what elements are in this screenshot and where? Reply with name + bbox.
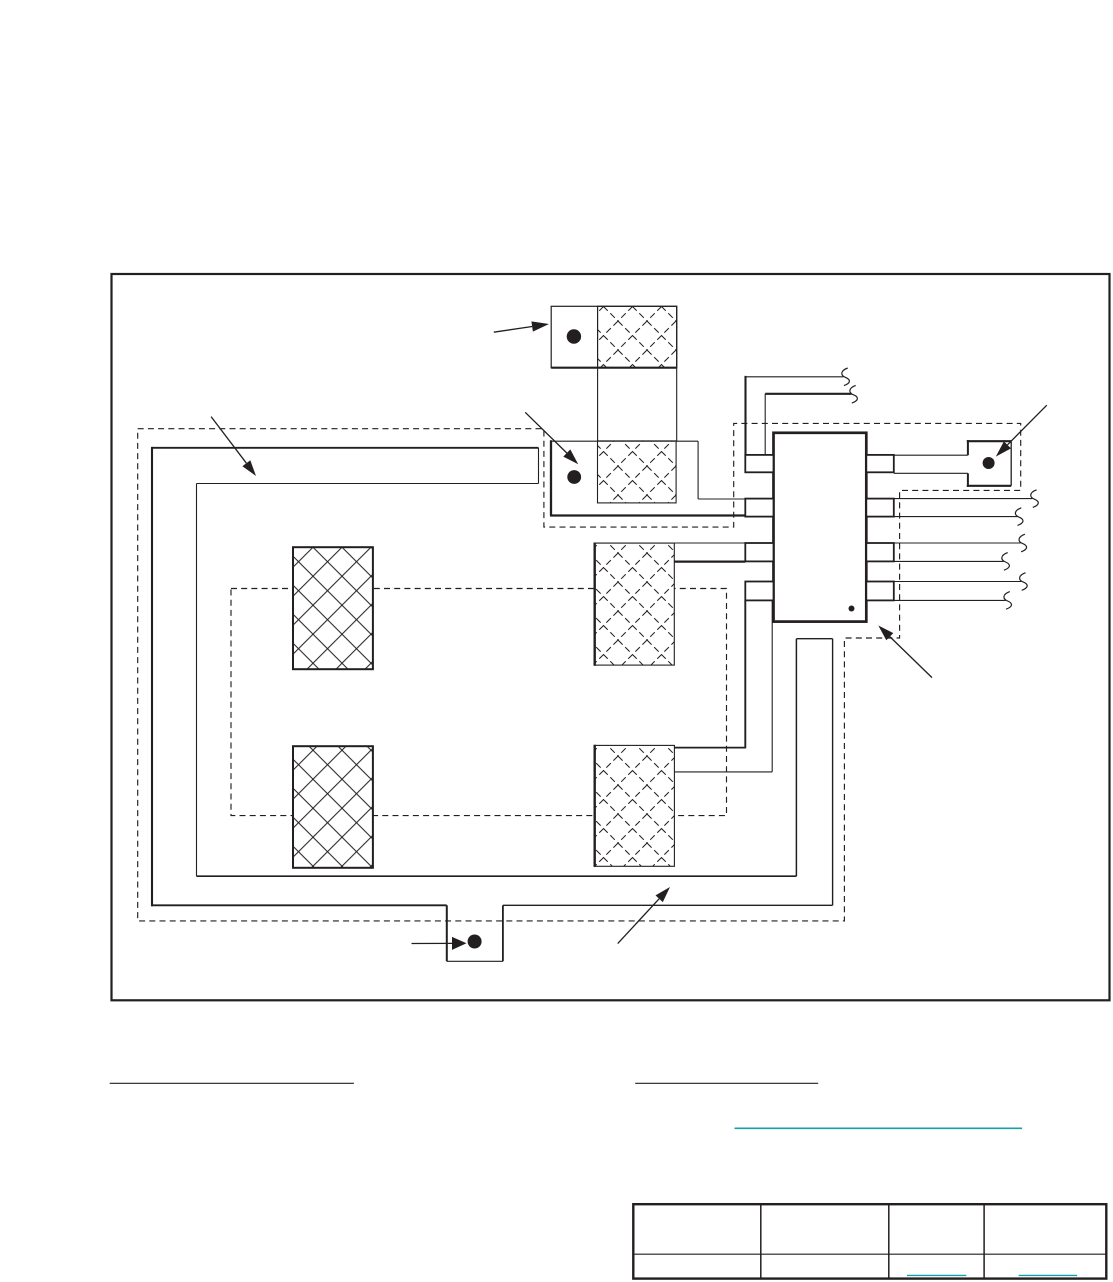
leader arrow to bottom via: [412, 937, 467, 950]
op-amp/regulator IC U1 body: [774, 433, 867, 622]
input feed trace from pin 8: [745, 376, 852, 455]
input trace end cap: [538, 448, 540, 484]
leader arrow to ground trace: [618, 887, 670, 944]
pin 4 wire b: [894, 599, 1006, 601]
pin 2 wire b: [894, 516, 1017, 518]
leader arrow to C1: [494, 321, 549, 332]
U1 pin 7 pad: [745, 499, 773, 517]
caption underline right: [635, 1082, 818, 1084]
ground plane dashed outline: [138, 423, 1021, 921]
pin 4 wire a: [894, 581, 1022, 583]
pin 2 wire a: [894, 498, 1033, 500]
trace D1 pad to pin 6: [595, 543, 746, 562]
trace pin 1 to via pad: [894, 455, 968, 473]
caption underline left: [110, 1082, 354, 1084]
wire break squiggle: [842, 368, 850, 386]
U1 pin 6 pad: [745, 543, 773, 561]
wire break squiggle: [850, 385, 858, 403]
hyperlink underline (teal): [735, 1127, 1023, 1129]
pin 3 wire a: [894, 542, 1021, 544]
figure border frame: [112, 274, 1110, 1000]
input capacitor C2 pad outline: [550, 440, 774, 515]
component pad (solid hatch, top-left): [293, 547, 373, 669]
input loop trace outer edge: [151, 447, 833, 906]
wire break squiggle: [1002, 553, 1010, 571]
wire break squiggle: [1019, 534, 1027, 552]
wire break squiggle: [1015, 508, 1023, 526]
wire break squiggle: [1004, 592, 1012, 610]
leader arrow to U1: [878, 626, 932, 678]
U1 pin 4 pad: [866, 582, 894, 601]
wire break squiggle: [1020, 573, 1028, 591]
pin 3 wire b: [894, 560, 1004, 562]
via in feedback pad: [983, 457, 995, 469]
footer table frame: [633, 1204, 1106, 1278]
trace connecting C1 to C2: [598, 368, 677, 441]
U1 pin 3 pad: [866, 543, 894, 561]
C2 hatched pad: [598, 441, 677, 503]
input capacitor C1 pad: [551, 306, 677, 367]
U1 pin 1 index dot: [849, 606, 855, 612]
leader arrow to C2 via: [525, 412, 578, 464]
trace C3 pad to pin 5 (ground): [674, 600, 772, 772]
footer table row divider: [633, 1253, 1106, 1255]
footer table column dividers: [761, 1204, 984, 1278]
output capacitor C3 hatched pad (bottom-right): [595, 745, 675, 866]
input loop trace inner edge: [197, 484, 797, 877]
U1 pin 8 pad: [745, 455, 773, 472]
bottom via notch: [447, 905, 503, 961]
component pad (solid hatch, bottom-left): [293, 746, 373, 868]
via in C1 pad: [567, 329, 581, 343]
wire break squiggle: [1031, 490, 1039, 508]
U1 pin 1 pad: [866, 455, 894, 472]
U1 pin 2 pad: [866, 499, 894, 517]
U1 pin 5 pad: [745, 582, 773, 601]
leader arrow to input trace: [211, 417, 256, 476]
table link underline 2 (teal): [1019, 1274, 1078, 1276]
via in C2 pad: [567, 470, 581, 484]
inner dashed region outline: [231, 589, 727, 816]
leader arrow to feedback via: [996, 405, 1047, 456]
output trace below IC: [796, 639, 832, 906]
table link underline 1 (teal): [907, 1274, 966, 1276]
diode D1 hatched pad (top-right): [595, 543, 675, 665]
via in bottom notch: [468, 935, 482, 949]
feedback via pad: [967, 440, 1011, 487]
